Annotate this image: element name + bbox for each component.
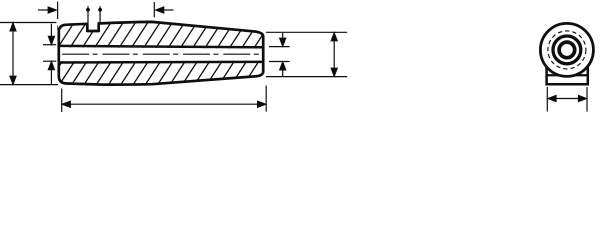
groove width leader, left (line with dot) [86,6,90,23]
dimension: left end to crown, right arrow [156,7,174,13]
handle outline with top groove [59,22,263,85]
dimension: left end to crown, left arrow [38,7,56,13]
end view: bore circle [559,42,575,58]
dimension: bore diameter left, top tick and arrow [43,24,56,45]
groove width leader, right (line with dot) [98,6,102,23]
dimension: left end to crown, extension lines [58,2,155,20]
dimension: overall length, extension lines [62,86,267,113]
dimension: bore diameter left, bottom tick and arrow [43,61,56,84]
dimension: bore diameter right, bottom tick and arrow [269,62,290,77]
dimension: max diameter, top extension line [0,22,56,24]
end view: counterbore circle [553,36,581,64]
dimension: max diameter, double-headed arrow [10,23,16,84]
end view: mounting boss with flat base [547,67,588,85]
dimension: max diameter, bottom extension line [0,84,58,86]
handle body (sectioned), white fill [59,22,263,85]
centerline (dash-dot axis) [62,53,262,55]
extension line stub at left end [56,25,58,30]
section hatching [30,18,298,92]
dimension: boss width, extension lines [547,87,587,112]
bore bottom line [60,61,262,64]
tapered bore interior (white band) [58,47,264,61]
end view: outer circle [540,23,593,76]
dimension: boss width, double-headed arrow [548,96,587,102]
dimension: right end diameter, double-headed arrow [331,33,337,76]
end view: hidden circle (dashed) [548,31,586,69]
dimension: overall length, double-headed arrow [62,101,265,107]
dimension: right end diameter, extension lines [266,32,347,76]
bore top line [60,46,262,47]
dimension: bore diameter right, top tick and arrow [269,33,290,47]
